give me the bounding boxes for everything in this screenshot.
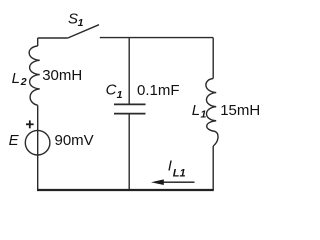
plus sign of source E — [26, 120, 34, 128]
svg-text:E: E — [9, 132, 20, 149]
wire capacitor branch lower — [128, 114, 130, 190]
inductor L1 coil — [206, 79, 218, 147]
svg-text:1: 1 — [201, 108, 207, 120]
wire right vertical lower — [212, 146, 214, 190]
svg-text:L: L — [12, 70, 20, 87]
svg-text:2: 2 — [20, 76, 27, 88]
svg-text:30mH: 30mH — [42, 67, 82, 84]
svg-text:L1: L1 — [173, 167, 186, 179]
svg-text:15mH: 15mH — [220, 102, 260, 119]
svg-text:C: C — [106, 82, 117, 99]
svg-text:90mV: 90mV — [55, 132, 94, 149]
svg-text:L: L — [192, 102, 200, 119]
svg-text:I: I — [168, 158, 172, 175]
switch S1 blade — [68, 25, 99, 38]
wire left vertical lower — [37, 105, 39, 190]
voltage source E circle — [25, 130, 50, 155]
wire top-right horizontal — [100, 37, 213, 39]
wire left vertical upper — [37, 38, 39, 46]
wire top-left horizontal — [38, 37, 68, 39]
svg-text:1: 1 — [78, 17, 84, 29]
svg-text:0.1mF: 0.1mF — [137, 82, 180, 99]
svg-text:1: 1 — [117, 89, 123, 101]
wire capacitor branch upper — [128, 38, 130, 104]
wire bottom horizontal — [37, 189, 214, 191]
capacitor C1 top plate — [114, 103, 146, 105]
wire right vertical upper — [212, 38, 214, 79]
current arrow IL1 — [151, 179, 195, 185]
capacitor C1 bottom plate — [114, 113, 146, 115]
svg-text:S: S — [68, 10, 78, 27]
inductor L2 coil — [29, 46, 40, 105]
